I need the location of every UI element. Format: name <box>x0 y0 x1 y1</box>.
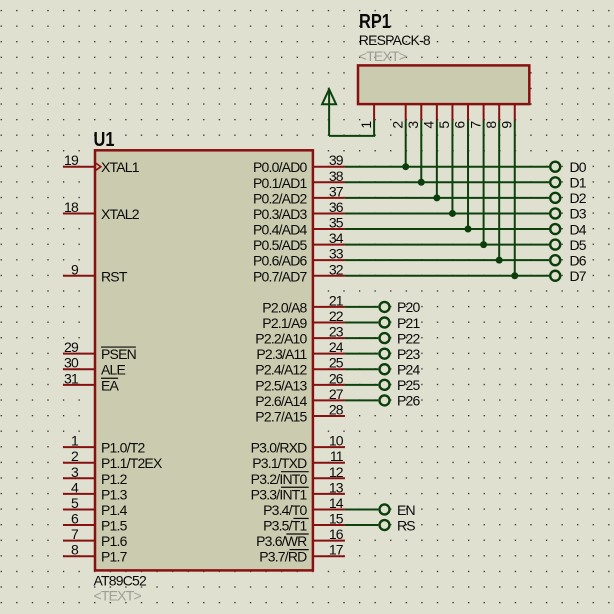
junction node D2 <box>433 194 440 201</box>
svg-text:P1.1/T2EX: P1.1/T2EX <box>101 455 163 471</box>
wire RP1 pin 3 down to node D1 <box>420 121 422 183</box>
terminal RS <box>380 517 416 533</box>
svg-text:8: 8 <box>71 542 79 558</box>
pin 25 P2.4-A12 (right side) <box>255 355 345 378</box>
pin 23 P2.2-A10 (right side) <box>255 324 345 347</box>
svg-text:D6: D6 <box>570 252 587 268</box>
svg-text:30: 30 <box>64 355 79 371</box>
svg-text:P3.2/INT0: P3.2/INT0 <box>251 471 308 487</box>
wire P2.6/A14 to terminal P26 <box>345 399 378 401</box>
svg-text:35: 35 <box>329 215 344 231</box>
wire RP1 pin 7 down to node D5 <box>483 121 485 245</box>
svg-text:P25: P25 <box>397 377 421 393</box>
svg-text:EA: EA <box>101 377 120 393</box>
svg-text:P0.5/AD5: P0.5/AD5 <box>253 237 308 253</box>
junction node D3 <box>449 210 456 217</box>
svg-text:PSEN: PSEN <box>101 346 136 362</box>
svg-text:P24: P24 <box>397 362 421 378</box>
wire P0.5/AD5 to terminal D5 <box>345 244 549 246</box>
svg-text:3: 3 <box>405 121 421 129</box>
svg-text:18: 18 <box>64 199 79 215</box>
wire RP1 pin 1 to power symbol <box>329 121 374 136</box>
svg-text:D5: D5 <box>570 237 587 253</box>
svg-text:P21: P21 <box>397 315 421 331</box>
svg-text:ALE: ALE <box>101 362 126 378</box>
wire P0.2/AD2 to terminal D2 <box>345 197 549 199</box>
svg-text:P1.5: P1.5 <box>101 518 128 534</box>
wire RP1 pin 5 down to node D3 <box>451 121 453 214</box>
svg-text:P2.1/A9: P2.1/A9 <box>262 315 307 331</box>
pin 39 P0.0-AD0 (right side) <box>253 152 345 175</box>
svg-text:P2.7/A15: P2.7/A15 <box>255 408 307 424</box>
svg-text:D3: D3 <box>570 206 587 222</box>
svg-text:25: 25 <box>329 355 344 371</box>
svg-text:4: 4 <box>71 479 79 495</box>
svg-text:2: 2 <box>71 448 79 464</box>
svg-text:P1.0/T2: P1.0/T2 <box>101 440 145 456</box>
pin 19 XTAL1 (left side) <box>63 152 140 175</box>
junction node D1 <box>418 179 425 186</box>
pin 10 P3.0-RXD (right side) <box>251 433 345 456</box>
svg-text:P0.4/AD4: P0.4/AD4 <box>253 222 308 238</box>
resistor pack RP1 body <box>358 65 529 104</box>
svg-text:P3.4/T0: P3.4/T0 <box>263 502 307 518</box>
svg-text:33: 33 <box>329 246 344 262</box>
svg-text:8: 8 <box>483 121 499 129</box>
wire P2.1/A9 to terminal P21 <box>345 322 378 324</box>
svg-text:23: 23 <box>329 324 344 340</box>
svg-text:11: 11 <box>330 448 344 464</box>
svg-text:5: 5 <box>436 121 452 129</box>
power symbol (up arrow) <box>322 89 336 136</box>
svg-text:P2.6/A14: P2.6/A14 <box>255 393 307 409</box>
pin 8 P1.7 (left side) <box>63 542 128 565</box>
pin 26 P2.5-A13 (right side) <box>255 370 345 393</box>
RP1 pin 3 <box>405 104 421 129</box>
pin 31 EA (left side) <box>63 370 120 393</box>
pin 2 P1.1-T2EX (left side) <box>63 448 163 471</box>
wire RP1 pin 8 down to node D6 <box>498 121 500 261</box>
svg-text:16: 16 <box>329 526 344 542</box>
svg-text:P1.2: P1.2 <box>101 471 128 487</box>
pin 13 P3.3-INT1 (right side) <box>251 479 345 502</box>
svg-text:6: 6 <box>452 121 468 129</box>
svg-text:P2.2/A10: P2.2/A10 <box>255 331 307 347</box>
pin 14 P3.4-T0 (right side) <box>263 495 345 518</box>
terminal D0 <box>550 159 587 175</box>
RP1 pin 5 <box>436 104 452 129</box>
wire P2.4/A12 to terminal P24 <box>345 368 378 370</box>
svg-text:P1.7: P1.7 <box>101 549 128 565</box>
terminal D7 <box>550 268 587 284</box>
pin 6 P1.5 (left side) <box>63 511 128 534</box>
svg-text:P1.4: P1.4 <box>101 502 128 518</box>
svg-text:39: 39 <box>329 152 344 168</box>
svg-text:P26: P26 <box>397 393 421 409</box>
svg-text:13: 13 <box>329 479 344 495</box>
pin 17 P3.7-RD (right side) <box>259 542 345 565</box>
wire P0.7/AD7 to terminal D7 <box>345 275 549 277</box>
pin 38 P0.1-AD1 (right side) <box>253 168 345 191</box>
pin 5 P1.4 (left side) <box>63 495 128 518</box>
svg-text:D4: D4 <box>570 221 587 237</box>
svg-text:31: 31 <box>64 370 79 386</box>
svg-text:28: 28 <box>329 401 344 417</box>
svg-text:P0.2/AD2: P0.2/AD2 <box>253 190 308 206</box>
svg-text:D2: D2 <box>570 190 587 206</box>
svg-text:12: 12 <box>329 464 344 480</box>
svg-text:P20: P20 <box>397 299 421 315</box>
svg-text:27: 27 <box>329 386 344 402</box>
terminal P20 <box>380 299 421 315</box>
terminal P25 <box>380 377 421 393</box>
RP1 pin 6 <box>452 104 468 129</box>
wire P0.0/AD0 to terminal D0 <box>345 166 549 168</box>
wire P2.3/A11 to terminal P23 <box>345 353 378 355</box>
junction node D4 <box>465 226 472 233</box>
svg-text:10: 10 <box>329 433 344 449</box>
svg-text:7: 7 <box>71 526 79 542</box>
pin 15 P3.5-T1 (right side) <box>263 511 345 534</box>
svg-text:24: 24 <box>329 339 344 355</box>
svg-text:<TEXT>: <TEXT> <box>94 588 142 604</box>
pin 21 P2.0-A8 (right side) <box>262 292 345 315</box>
svg-text:17: 17 <box>329 542 344 558</box>
junction node D0 <box>402 163 409 170</box>
svg-text:P3.5/T1: P3.5/T1 <box>263 518 307 534</box>
terminal P21 <box>380 315 421 331</box>
wire P2.2/A10 to terminal P22 <box>345 337 378 339</box>
RP1 pin 1 <box>358 104 374 129</box>
pin 36 P0.3-AD3 (right side) <box>253 199 345 222</box>
wire RP1 pin 2 down to node D0 <box>405 121 407 167</box>
svg-text:37: 37 <box>329 183 344 199</box>
svg-text:P1.6: P1.6 <box>101 533 128 549</box>
wire RP1 pin 9 down to node D7 <box>514 121 516 276</box>
junction node D6 <box>496 257 503 264</box>
RP1 pin 8 <box>483 104 499 129</box>
svg-text:15: 15 <box>329 511 344 527</box>
RP1 pin 7 <box>467 104 483 129</box>
wire P3.4-T0 to terminal EN <box>345 508 378 510</box>
svg-text:P0.0/AD0: P0.0/AD0 <box>253 159 308 175</box>
terminal P22 <box>380 330 421 346</box>
RP1 pin 9 <box>498 104 514 129</box>
RP1 pin 4 <box>421 104 437 129</box>
svg-text:1: 1 <box>358 121 374 129</box>
svg-text:EN: EN <box>397 502 415 518</box>
svg-text:29: 29 <box>64 339 79 355</box>
terminal P23 <box>380 346 421 362</box>
svg-text:4: 4 <box>421 121 437 129</box>
svg-text:3: 3 <box>71 464 79 480</box>
svg-text:RST: RST <box>101 268 128 284</box>
svg-text:U1: U1 <box>94 127 115 150</box>
terminal P26 <box>380 393 421 409</box>
terminal D2 <box>550 190 587 206</box>
pin 32 P0.7-AD7 (right side) <box>253 261 345 284</box>
svg-text:38: 38 <box>329 168 344 184</box>
terminal D6 <box>550 252 587 268</box>
microcontroller U1 (AT89C52) body <box>95 150 313 570</box>
svg-text:P0.1/AD1: P0.1/AD1 <box>253 175 308 191</box>
svg-text:RS: RS <box>397 517 415 533</box>
svg-text:P2.4/A12: P2.4/A12 <box>255 362 307 378</box>
svg-text:36: 36 <box>329 199 344 215</box>
wire P2.5/A13 to terminal P25 <box>345 384 378 386</box>
terminal D1 <box>550 175 587 191</box>
svg-text:P3.0/RXD: P3.0/RXD <box>251 440 308 456</box>
svg-text:P2.0/A8: P2.0/A8 <box>262 299 307 315</box>
svg-text:19: 19 <box>64 152 79 168</box>
svg-text:D0: D0 <box>570 159 587 175</box>
svg-text:9: 9 <box>498 121 514 129</box>
pin 22 P2.1-A9 (right side) <box>262 308 345 331</box>
svg-text:P0.7/AD7: P0.7/AD7 <box>253 268 308 284</box>
pin 4 P1.3 (left side) <box>63 479 128 502</box>
svg-text:P0.6/AD6: P0.6/AD6 <box>253 253 308 269</box>
svg-text:P22: P22 <box>397 330 421 346</box>
wire P0.4/AD4 to terminal D4 <box>345 228 549 230</box>
svg-text:34: 34 <box>329 230 344 246</box>
pin 1 P1.0-T2 (left side) <box>63 433 145 456</box>
pin 34 P0.5-AD5 (right side) <box>253 230 345 253</box>
svg-text:P23: P23 <box>397 346 421 362</box>
svg-text:6: 6 <box>71 511 79 527</box>
svg-text:21: 21 <box>329 292 344 308</box>
svg-text:<TEXT>: <TEXT> <box>359 48 407 64</box>
svg-text:AT89C52: AT89C52 <box>94 573 148 589</box>
pin 12 P3.2-INT0 (right side) <box>251 464 345 487</box>
svg-text:1: 1 <box>71 433 79 449</box>
wire P2.0/A8 to terminal P20 <box>345 306 378 308</box>
terminal EN <box>380 502 415 518</box>
pin 30 ALE (left side) <box>63 355 126 378</box>
wire P0.3/AD3 to terminal D3 <box>345 212 549 214</box>
wire P0.6/AD6 to terminal D6 <box>345 259 549 261</box>
pin 29 PSEN (left side) <box>63 339 136 362</box>
junction node D5 <box>480 241 487 248</box>
RP1 pin 2 <box>389 104 405 129</box>
svg-text:P3.7/RD: P3.7/RD <box>259 549 307 565</box>
pin 3 P1.2 (left side) <box>63 464 128 487</box>
junction node D7 <box>511 272 518 279</box>
wire RP1 pin 6 down to node D4 <box>467 121 469 230</box>
svg-text:P3.1/TXD: P3.1/TXD <box>252 455 307 471</box>
svg-text:XTAL2: XTAL2 <box>101 206 140 222</box>
svg-text:26: 26 <box>329 370 344 386</box>
svg-text:P0.3/AD3: P0.3/AD3 <box>253 206 308 222</box>
svg-text:P2.3/A11: P2.3/A11 <box>256 346 307 362</box>
svg-text:9: 9 <box>71 261 79 277</box>
pin 33 P0.6-AD6 (right side) <box>253 246 345 269</box>
svg-text:P3.3/INT1: P3.3/INT1 <box>251 486 308 502</box>
wire P0.1/AD1 to terminal D1 <box>345 181 549 183</box>
svg-text:22: 22 <box>329 308 344 324</box>
svg-text:14: 14 <box>329 495 344 511</box>
terminal D5 <box>550 237 587 253</box>
svg-text:D7: D7 <box>570 268 587 284</box>
pin 11 P3.1-TXD (right side) <box>252 448 345 471</box>
pin 7 P1.6 (left side) <box>63 526 128 549</box>
wire P3.5-T1 to terminal RS <box>345 524 378 526</box>
svg-text:2: 2 <box>389 121 405 129</box>
svg-text:P3.6/WR: P3.6/WR <box>256 533 307 549</box>
pin 28 P2.7-A15 (right side) <box>255 401 345 424</box>
pin 9 RST (left side) <box>63 261 128 284</box>
svg-text:P1.3: P1.3 <box>101 486 128 502</box>
pin 35 P0.4-AD4 (right side) <box>253 215 345 238</box>
svg-text:RESPACK-8: RESPACK-8 <box>359 32 431 48</box>
svg-text:D1: D1 <box>570 175 587 191</box>
pin 18 XTAL2 (left side) <box>63 199 140 222</box>
pin 24 P2.3-A11 (right side) <box>256 339 345 362</box>
wire RP1 pin 4 down to node D2 <box>436 121 438 198</box>
svg-text:P2.5/A13: P2.5/A13 <box>255 377 307 393</box>
svg-text:32: 32 <box>329 261 344 277</box>
svg-text:XTAL1: XTAL1 <box>101 159 140 175</box>
terminal D4 <box>550 221 587 237</box>
svg-text:7: 7 <box>467 121 483 129</box>
pin 27 P2.6-A14 (right side) <box>255 386 345 409</box>
svg-text:RP1: RP1 <box>359 9 391 32</box>
pin 16 P3.6-WR (right side) <box>256 526 345 549</box>
svg-text:5: 5 <box>71 495 79 511</box>
terminal P24 <box>380 362 421 378</box>
terminal D3 <box>550 206 587 222</box>
pin 37 P0.2-AD2 (right side) <box>253 183 345 206</box>
